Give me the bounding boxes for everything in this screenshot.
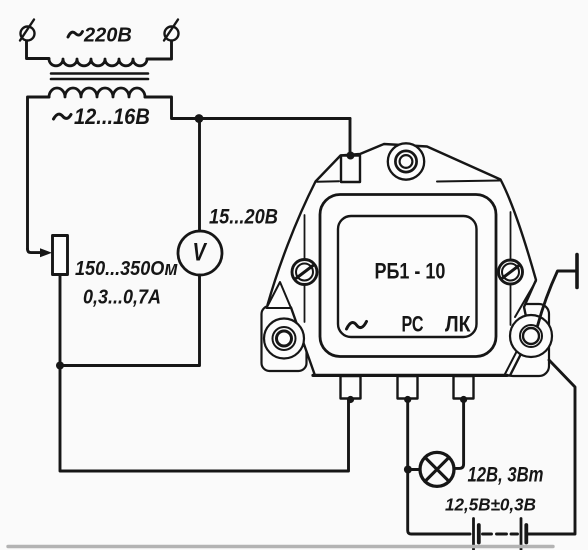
node B (bottom-left junction) (56, 362, 64, 370)
wire primary to right terminal (147, 42, 172, 60)
voltmeter PV1 (178, 231, 222, 275)
wire node B down and right to regulator terminal 1 (60, 366, 349, 472)
left mounting ear rings (264, 319, 304, 359)
lamp HL1 (420, 452, 454, 486)
regulator RB1-10 left mounting lug plate (262, 306, 307, 371)
label RB1-10 (375, 260, 446, 284)
wire ear to plus clamp (538, 271, 576, 326)
wire node A down to voltmeter (198, 119, 201, 232)
svg-text:ЛК: ЛК (445, 312, 471, 336)
label PC (402, 313, 424, 337)
svg-text:0,3...0,7А: 0,3...0,7А (83, 287, 161, 309)
bottom terminal 2 (398, 376, 418, 399)
battery GB1 cell 1 long plate (472, 519, 475, 550)
label 150...350 Ohm (75, 258, 178, 280)
node terminal 1 (347, 396, 354, 403)
transformer core (51, 74, 148, 80)
wire rheostat bottom (59, 275, 62, 366)
right mounting ear rings (510, 315, 552, 357)
case rim line left (304, 215, 306, 322)
plus clamp terminal (575, 255, 579, 288)
top terminal of regulator (341, 156, 360, 183)
wire left terminal to primary (27, 42, 50, 59)
label ~220V (68, 32, 83, 38)
scan edge line bottom (8, 545, 553, 548)
label ~ (AC terminal mark) (347, 322, 367, 330)
label 12V 3W (468, 464, 544, 487)
wire terminal 2 down to battery (408, 401, 470, 534)
svg-text:150...350Ом: 150...350Ом (75, 258, 178, 280)
wire battery right up to regulator ear (528, 360, 575, 534)
node A (voltmeter tap junction) (195, 114, 204, 123)
battery GB1 cell 2 short plate (524, 525, 528, 543)
label 12,5V +-0,3V (445, 494, 536, 515)
regulator case body (268, 144, 537, 376)
case top-left face line (317, 180, 339, 183)
wire lamp left stub (408, 468, 422, 471)
terminal X1 (left mains input) (20, 20, 35, 41)
wire terminal 3 to lamp (455, 401, 464, 468)
svg-text:РБ1 - 10: РБ1 - 10 (375, 260, 446, 284)
case rim line right (510, 212, 512, 325)
rheostat R1 body (53, 236, 68, 275)
battery dashed cells (483, 533, 518, 536)
svg-text:15...20В: 15...20В (209, 205, 278, 228)
battery GB1 cell 1 short plate (477, 525, 481, 543)
svg-text:V: V (193, 238, 208, 266)
rheostat R1 wiper arrow (28, 249, 42, 253)
terminal X2 (right mains input) (164, 20, 179, 41)
svg-text:12...16В: 12...16В (74, 105, 150, 129)
svg-text:12В, 3Вт: 12В, 3Вт (468, 464, 544, 487)
node terminal 3 (460, 396, 467, 403)
label 0,3...0,7A (83, 287, 161, 309)
case top-right face line (437, 181, 500, 182)
node lamp junction (404, 466, 412, 474)
right corner flap line (515, 281, 536, 317)
transformer T1 secondary winding (49, 88, 145, 97)
wire secondary left end down (28, 97, 50, 249)
transformer T1 primary winding (49, 59, 147, 66)
bottom terminal 3 (454, 376, 474, 399)
svg-text:12,5В±0,3В: 12,5В±0,3В (445, 494, 536, 515)
bottom right corner line (505, 345, 520, 374)
wire secondary right end to main node (145, 97, 350, 119)
screw right (499, 260, 523, 284)
regulator right mounting lug plate (503, 304, 549, 376)
svg-text:220В: 220В (83, 25, 132, 47)
top mounting ear (388, 143, 424, 179)
wire voltmeter bottom (60, 275, 200, 366)
regulator cover (320, 195, 496, 357)
label 15...20V (209, 205, 278, 228)
node top terminal (347, 152, 355, 160)
svg-text:РС: РС (402, 313, 424, 337)
battery GB1 cell 2 long plate (520, 519, 523, 550)
case bottom edge overdraw (313, 374, 507, 377)
wire main node to regulator top terminal (349, 119, 352, 154)
bottom terminal 1 (341, 376, 361, 399)
screw left (292, 260, 317, 285)
node terminal 2 (404, 396, 411, 403)
regulator label panel (338, 216, 477, 337)
left corner gusset (267, 282, 292, 308)
label ~12...16V (54, 114, 72, 119)
label LK (445, 312, 471, 336)
